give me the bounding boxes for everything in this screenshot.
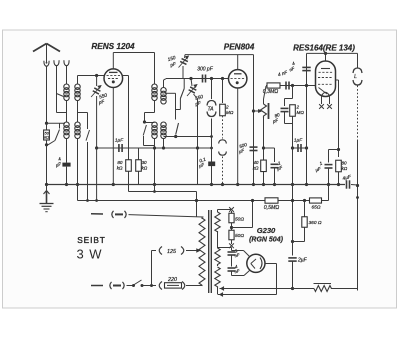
svg-text:TA: TA xyxy=(207,107,214,113)
svg-text:kΩ: kΩ xyxy=(253,166,259,171)
svg-text:0,5MΩ: 0,5MΩ xyxy=(264,205,280,211)
svg-text:(RGN 504): (RGN 504) xyxy=(249,237,284,244)
svg-text:MΩ: MΩ xyxy=(226,110,234,115)
svg-text:80: 80 xyxy=(117,160,123,165)
svg-text:125: 125 xyxy=(167,249,177,255)
svg-text:40: 40 xyxy=(253,160,259,165)
svg-text:65Ω: 65Ω xyxy=(312,205,321,211)
svg-text:360 Ω: 360 Ω xyxy=(309,220,322,226)
svg-text:RENS 1204: RENS 1204 xyxy=(91,42,135,51)
svg-text:3 W: 3 W xyxy=(76,247,102,262)
svg-text:50Ω: 50Ω xyxy=(235,233,244,239)
svg-text:2µF: 2µF xyxy=(297,258,308,264)
svg-text:1µF: 1µF xyxy=(115,138,124,144)
svg-text:kΩ: kΩ xyxy=(44,135,49,140)
svg-text:L: L xyxy=(354,74,357,80)
svg-text:220: 220 xyxy=(167,277,177,283)
svg-text:300 pF: 300 pF xyxy=(197,67,214,73)
svg-text:kΩ: kΩ xyxy=(342,166,348,171)
svg-text:SEIBT: SEIBT xyxy=(77,235,105,245)
svg-text:80: 80 xyxy=(342,161,348,166)
svg-text:kΩ: kΩ xyxy=(117,166,123,171)
svg-text:1µF: 1µF xyxy=(294,138,303,144)
svg-text:PEN804: PEN804 xyxy=(224,43,255,52)
svg-text:kΩ: kΩ xyxy=(142,166,148,171)
svg-text:2: 2 xyxy=(225,105,229,110)
svg-text:50Ω: 50Ω xyxy=(235,217,244,223)
svg-text:2: 2 xyxy=(296,105,300,110)
svg-text:0,3MΩ: 0,3MΩ xyxy=(263,89,279,95)
svg-text:MΩ: MΩ xyxy=(297,110,305,115)
svg-text:RES164(RE 134): RES164(RE 134) xyxy=(293,44,355,53)
svg-text:30: 30 xyxy=(142,160,148,165)
svg-text:G230: G230 xyxy=(257,226,276,235)
